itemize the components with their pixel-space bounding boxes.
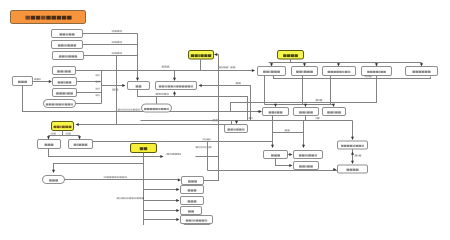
box 王审琦 xyxy=(181,197,204,205)
arrow into yellow from x218 xyxy=(217,54,219,56)
box 老三 xyxy=(53,52,84,60)
label 江湖 xyxy=(117,197,119,199)
yellow box 郑户大房 xyxy=(278,51,304,60)
long wire 相国寺 bottom to row2 xyxy=(23,86,260,112)
long wire from 妾 box right xyxy=(93,141,273,143)
y156 wire with label xyxy=(49,142,338,171)
long horizontal y120 xyxy=(141,116,353,138)
box 长子·德昭 xyxy=(263,108,289,116)
box 夫人 xyxy=(294,151,323,159)
box 云州节度使 xyxy=(406,67,438,76)
arrow into 赵普 xyxy=(102,85,123,87)
box 长兄·周光义 xyxy=(258,67,286,76)
wires trio to x137 xyxy=(83,34,138,79)
under-box wiring y95 xyxy=(138,90,248,121)
path 杨家 down to left xyxy=(231,76,377,112)
arrow into 陈桥 xyxy=(236,121,238,122)
box 次子·德芳 xyxy=(294,108,319,116)
box 陈桥 xyxy=(225,125,248,133)
box 郑一 xyxy=(181,207,202,215)
verticals row1 to row2 xyxy=(265,76,334,105)
wire 王府 to 张琼 xyxy=(144,219,177,221)
box 次兄·罗延庆 xyxy=(292,67,318,76)
box 义士郑恩 xyxy=(294,162,319,170)
wires temple boxes to x101 xyxy=(76,71,102,104)
header line row1 xyxy=(269,63,422,65)
yellow box 郑恩·陶三春 xyxy=(52,122,74,131)
line under row1 y78 xyxy=(274,76,431,79)
box 三弟郑子明 xyxy=(323,67,356,76)
box 大内总管 xyxy=(338,141,368,149)
main horizontal y70 xyxy=(102,59,252,79)
wire 王府 to 王审琦 xyxy=(144,200,177,202)
y85 wire from wide box to x250 xyxy=(202,86,251,121)
box 三子·德美 xyxy=(323,108,346,116)
box 赵匡胤 xyxy=(264,151,288,159)
box 大妻子 xyxy=(38,140,61,149)
wire 王府 to 郑一 xyxy=(144,210,177,212)
stadium 老方丈 xyxy=(44,100,76,108)
box 相国寺 xyxy=(13,77,33,86)
box 石守信 xyxy=(181,186,204,194)
box 开封府尹 xyxy=(338,165,368,173)
yellow box 柴荣·周世宗 xyxy=(189,51,214,60)
box 山后杨家 xyxy=(362,67,392,76)
wire x116 down to yellow couple, long y124 line xyxy=(79,56,232,125)
box 师弟 xyxy=(53,78,77,86)
box 张琼 xyxy=(181,216,213,224)
wire 相国寺 to 师弟 xyxy=(33,81,50,83)
box 师叔祖 xyxy=(53,89,77,97)
wires row2 down xyxy=(273,116,304,146)
stadium 风雪山神庙 xyxy=(156,97,158,104)
wire 王府 to 石守信 xyxy=(144,189,177,191)
branch to stadium 高怀德 xyxy=(54,164,144,171)
box 老大 xyxy=(52,30,83,38)
yellow box 王府 xyxy=(131,144,157,153)
title box xyxy=(11,11,86,24)
partial bottom box xyxy=(184,225,211,233)
box J0 呼延赞 xyxy=(182,177,204,185)
box 老二 xyxy=(52,41,83,49)
box 妾 xyxy=(69,140,93,149)
fork below xyxy=(49,131,80,138)
box 赵普 xyxy=(128,82,150,90)
box 养子德昭 xyxy=(156,82,197,90)
box 师兄 xyxy=(53,67,76,75)
stadium 高怀德 xyxy=(43,176,65,184)
